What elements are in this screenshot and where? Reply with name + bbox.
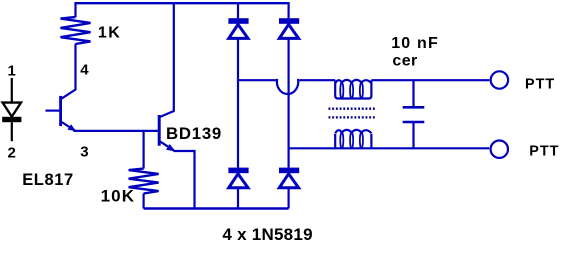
wire bottom rail (144, 207, 289, 209)
LED cathode wire pin 2 (11, 122, 13, 141)
diode D4 cathode bar (279, 168, 299, 174)
LED D5 triangle (EL817 input) (3, 103, 21, 117)
wire 10K top stub (143, 131, 145, 169)
svg-text:1K: 1K (98, 25, 121, 42)
svg-text:cer: cer (392, 53, 417, 70)
wire lower output from right column (289, 147, 490, 149)
capacitor C1 top plate (403, 106, 425, 109)
diode D1 cathode bar (228, 18, 248, 24)
resistor R1 1K (61, 17, 91, 44)
svg-text:EL817: EL817 (22, 171, 74, 189)
wire 1K to phototransistor collector (62, 44, 76, 99)
transformer T1 lower winding (335, 130, 371, 148)
capacitor C1 bottom lead (412, 122, 414, 148)
svg-text:3: 3 (80, 143, 88, 160)
diode D2 triangle (279, 24, 298, 38)
svg-text:2: 2 (8, 144, 16, 161)
diode D3 triangle (229, 174, 248, 188)
diode D1 triangle (229, 24, 248, 38)
wire upper output from left column (238, 79, 278, 81)
capacitor C1 bottom plate (403, 121, 425, 124)
LED anode wire pin 1 (11, 78, 13, 102)
capacitor C1 top lead (412, 80, 414, 107)
op-to transistor base bar (EL817 phototransistor) (59, 96, 62, 126)
wire emitter to BD139 base (74, 130, 159, 132)
wire 1K top stub (74, 3, 76, 17)
diode D2 wire from top rail (288, 3, 290, 18)
diode D4 triangle (279, 174, 298, 188)
phototransistor base stub (46, 109, 61, 111)
connector PTT lower circle (491, 141, 508, 158)
svg-text:PTT: PTT (529, 144, 559, 160)
LED D5 cathode bar (2, 117, 21, 122)
wire D4 to bottom rail (288, 188, 290, 209)
diode D2 cathode bar (279, 18, 299, 24)
svg-text:1: 1 (8, 63, 16, 80)
svg-text:PTT: PTT (525, 77, 555, 93)
transformer core dotted lines (329, 108, 376, 110)
svg-text:10 nF: 10 nF (391, 35, 439, 52)
transistor Q1 BD139 base bar (158, 115, 161, 146)
connector PTT upper circle (491, 71, 508, 88)
BD139 emitter (160, 142, 174, 151)
BD139 emitter arrowhead (166, 144, 176, 152)
wire top rail (74, 2, 289, 4)
wire BD139 emitter to bottom rail (174, 151, 195, 209)
wire left bridge column (237, 38, 239, 167)
wire D3 to bottom rail (237, 188, 239, 209)
svg-text:BD139: BD139 (166, 124, 222, 143)
diode D3 cathode bar (228, 168, 248, 174)
wire hop over right column (277, 79, 298, 94)
wire right bridge column (288, 38, 290, 167)
resistor R2 10K (129, 169, 159, 194)
wire upper winding to PTT (371, 79, 489, 81)
diode D1 wire from top rail (237, 3, 239, 18)
phototransistor emitter arrowhead (68, 124, 77, 131)
svg-text:10K: 10K (101, 186, 136, 205)
svg-text:4 x 1N5819: 4 x 1N5819 (222, 225, 312, 244)
BD139 collector (160, 3, 174, 117)
wire 10K bottom stub (143, 194, 145, 209)
svg-text:4: 4 (80, 62, 89, 79)
phototransistor emitter (62, 122, 75, 131)
transformer T1 upper winding (335, 80, 371, 99)
wire hop to upper winding (299, 79, 335, 81)
